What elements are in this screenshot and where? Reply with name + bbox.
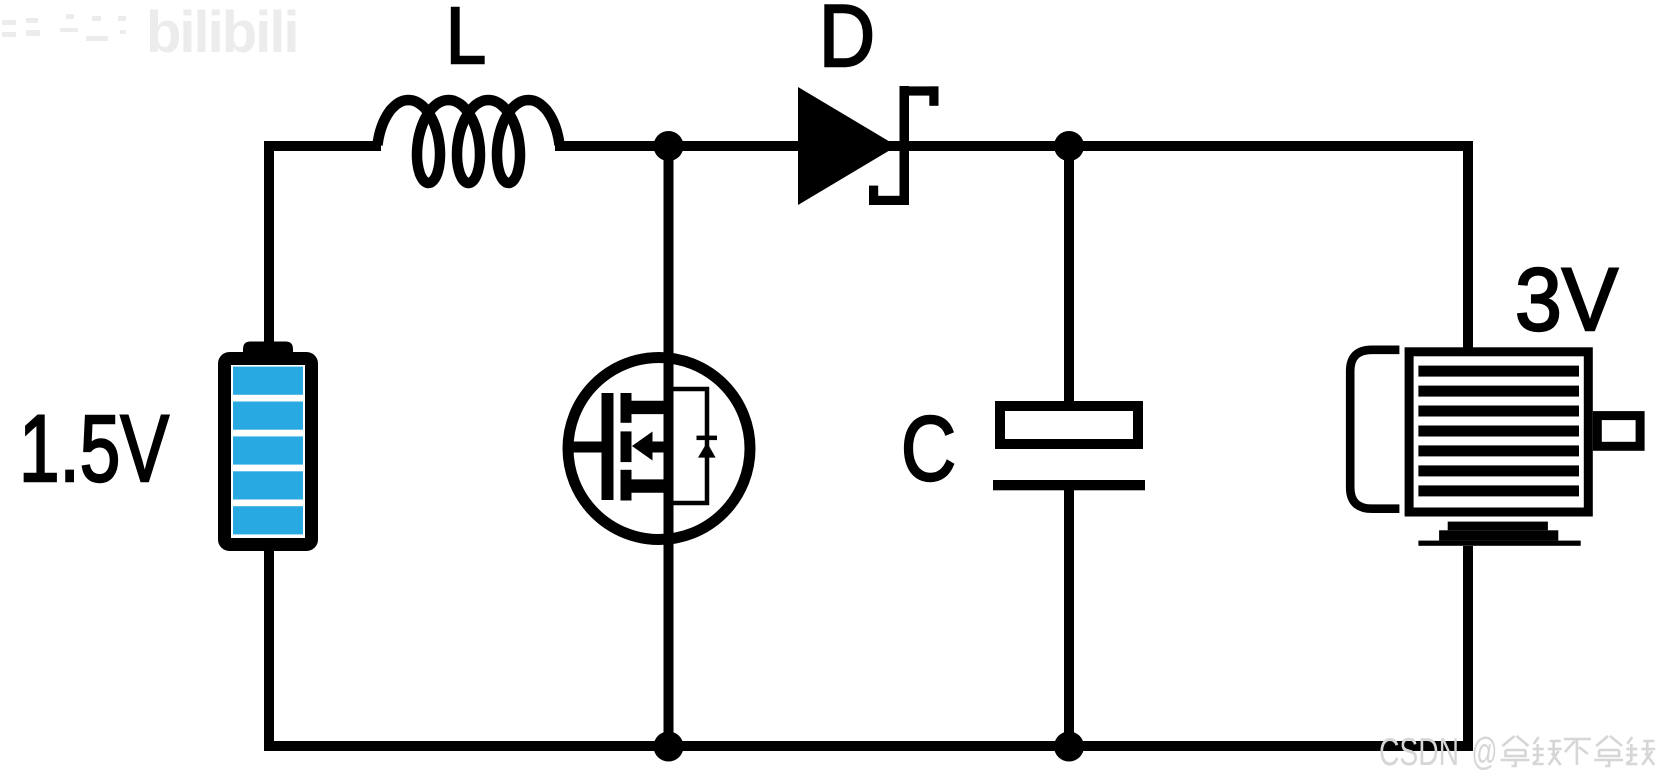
svg-text:1.5V: 1.5V (19, 396, 169, 502)
svg-text:@: @ (1472, 731, 1498, 774)
svg-text:3V: 3V (1515, 249, 1618, 349)
svg-text:CSDN: CSDN (1379, 731, 1459, 774)
svg-text:bilibili: bilibili (146, 0, 298, 65)
svg-text:L: L (446, 0, 486, 80)
svg-text:C: C (901, 398, 956, 500)
svg-text:D: D (819, 0, 875, 85)
